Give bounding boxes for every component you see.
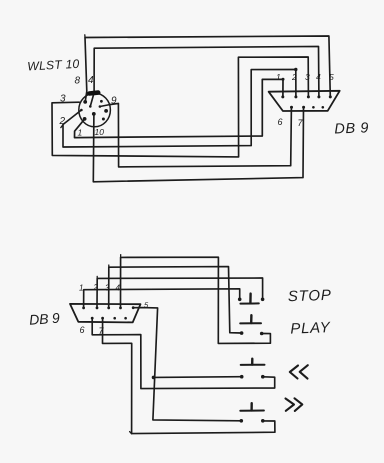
svg-text:3: 3 <box>60 94 66 105</box>
svg-text:STOP: STOP <box>288 287 332 306</box>
svg-text:DB 9: DB 9 <box>334 120 369 137</box>
svg-text:8: 8 <box>75 76 81 87</box>
svg-text:6: 6 <box>278 117 283 127</box>
svg-text:4: 4 <box>316 72 321 82</box>
svg-text:DB 9: DB 9 <box>29 310 61 328</box>
svg-text:2: 2 <box>291 72 297 82</box>
svg-text:WLST 10: WLST 10 <box>27 57 80 74</box>
svg-text:3: 3 <box>305 72 310 82</box>
svg-text:2: 2 <box>59 116 66 127</box>
svg-text:9: 9 <box>111 96 117 107</box>
svg-text:6: 6 <box>80 325 85 335</box>
svg-text:4: 4 <box>88 75 94 86</box>
svg-text:10: 10 <box>95 127 105 137</box>
svg-text:4: 4 <box>116 284 121 293</box>
svg-text:1: 1 <box>78 128 83 138</box>
svg-text:3: 3 <box>105 284 110 293</box>
svg-text:5: 5 <box>329 72 334 82</box>
svg-text:PLAY: PLAY <box>290 319 331 337</box>
svg-text:1: 1 <box>79 284 83 293</box>
svg-text:2: 2 <box>93 283 99 292</box>
svg-text:1: 1 <box>276 72 281 82</box>
